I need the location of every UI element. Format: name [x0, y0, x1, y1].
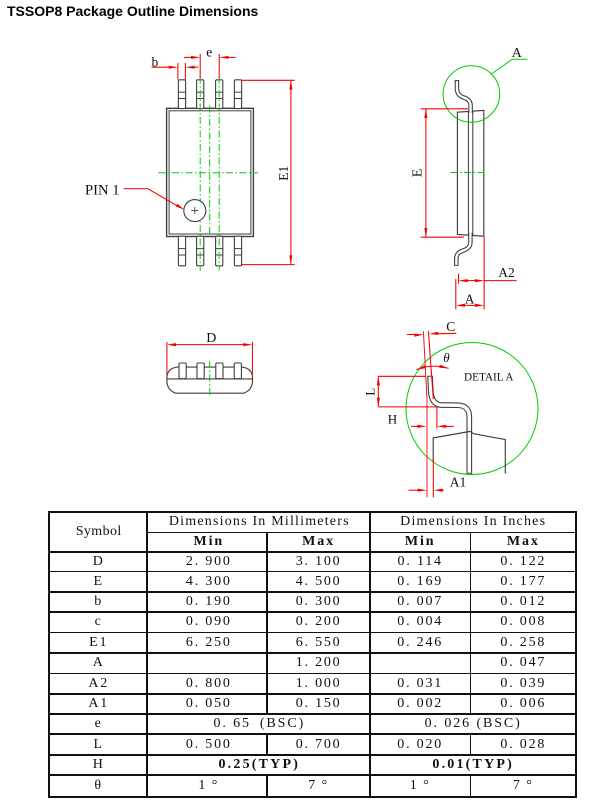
table row E	[94, 574, 104, 590]
table row A1	[88, 696, 109, 712]
table row e	[95, 716, 103, 732]
detail A body edge	[433, 431, 505, 473]
table row H	[93, 757, 105, 773]
pin 1 marker circle	[184, 200, 206, 222]
table headers	[76, 524, 122, 540]
svg-text:DETAIL A: DETAIL A	[464, 369, 514, 383]
svg-text:b: b	[152, 55, 159, 70]
dimension E	[410, 109, 468, 237]
svg-text:H: H	[388, 411, 397, 426]
front view package body lower half	[167, 379, 253, 393]
svg-text:A: A	[512, 46, 523, 61]
dimension theta arc	[416, 350, 450, 370]
dimension E1	[242, 80, 295, 264]
dimension C	[407, 319, 457, 337]
svg-text:A: A	[465, 291, 475, 306]
detail A red construction lines	[423, 331, 437, 497]
table row L	[94, 737, 104, 753]
svg-text:A2: A2	[498, 265, 515, 280]
svg-text:E1: E1	[277, 166, 292, 181]
PIN 1 leader arrow	[124, 189, 185, 210]
table row b	[94, 594, 103, 610]
svg-text:A1: A1	[450, 475, 467, 490]
table row A	[93, 655, 105, 671]
svg-text:D: D	[206, 331, 216, 346]
dimension A1	[409, 475, 467, 492]
dimension A	[456, 279, 484, 309]
dimension e	[184, 44, 236, 78]
table row A2	[88, 676, 109, 692]
side view package body	[457, 110, 483, 236]
detail callout circle A	[443, 66, 500, 123]
top view pins 8,7,6,5 (top row)	[178, 80, 241, 109]
table row &#952;	[94, 778, 103, 794]
dimension D	[167, 331, 253, 375]
dimension b	[152, 55, 199, 80]
svg-text:e: e	[206, 44, 212, 59]
table row D	[93, 554, 105, 570]
side view green centerline	[451, 172, 485, 174]
svg-text:PIN 1: PIN 1	[85, 182, 120, 198]
dimension H	[388, 411, 454, 428]
side view top lead (gull wing)	[455, 80, 471, 113]
svg-text:θ: θ	[443, 350, 450, 365]
detail A circle	[406, 343, 538, 475]
svg-text:C: C	[446, 319, 455, 334]
front view pin tabs	[179, 363, 241, 379]
callout A leader line	[491, 59, 527, 74]
side view lead through body	[468, 111, 472, 235]
front view package body upper half	[167, 367, 253, 379]
dimension A2	[459, 237, 517, 310]
front view seam line	[167, 378, 253, 380]
svg-text:L: L	[363, 388, 378, 396]
table row c	[95, 614, 103, 630]
side view bottom lead (gull wing)	[454, 233, 470, 265]
page title	[7, 3, 258, 19]
top view pins 1,2,3,4 (bottom row)	[178, 236, 241, 266]
detail A lead (enlarged)	[427, 376, 472, 473]
table row E1	[89, 635, 108, 651]
svg-text:E: E	[410, 169, 425, 178]
dimension L	[363, 376, 438, 407]
front view green centerline	[209, 361, 211, 397]
dimensions table grid	[146, 513, 148, 796]
top view green centerlines	[159, 77, 259, 271]
top view package body	[167, 108, 254, 236]
